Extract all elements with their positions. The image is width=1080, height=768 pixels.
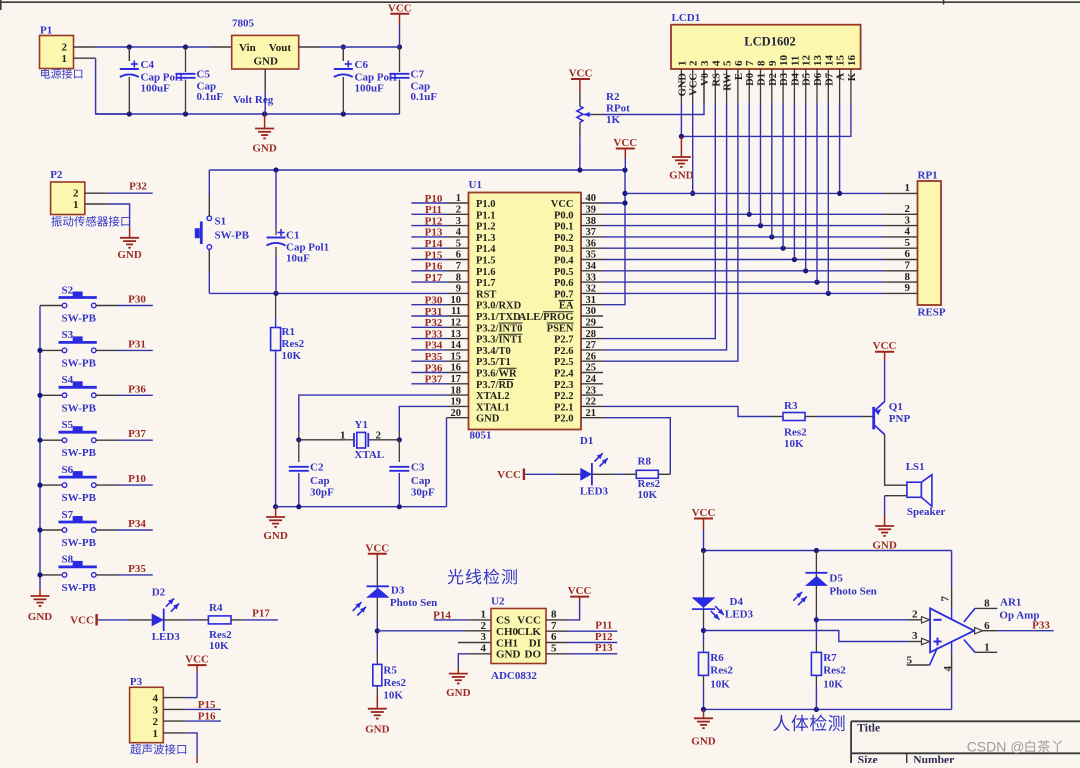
- svg-text:4: 4: [153, 693, 159, 705]
- svg-text:P34: P34: [425, 340, 443, 352]
- svg-text:10K: 10K: [823, 679, 843, 691]
- wire P0.1: [603, 225, 883, 227]
- svg-text:PSEN: PSEN: [547, 323, 574, 334]
- svg-text:1: 1: [62, 53, 68, 65]
- crystal ground rail: [276, 506, 447, 508]
- svg-text:Cap: Cap: [310, 475, 330, 487]
- svg-text:R6: R6: [710, 652, 724, 664]
- wire LS1 to ground: [885, 496, 907, 515]
- svg-text:D5: D5: [829, 573, 843, 585]
- capacitor C6: [334, 47, 398, 114]
- junction: [397, 44, 402, 49]
- junction: [273, 291, 278, 296]
- svg-text:C1: C1: [286, 230, 299, 242]
- svg-text:A: A: [836, 73, 847, 81]
- svg-text:10K: 10K: [638, 489, 658, 501]
- svg-text:CSDN @: CSDN @: [967, 739, 1025, 755]
- junction: [37, 527, 42, 532]
- svg-text:ALE/PROG: ALE/PROG: [519, 312, 574, 323]
- svg-text:10K: 10K: [710, 679, 730, 691]
- wire LCD K to GND: [681, 103, 851, 136]
- svg-text:D3: D3: [391, 585, 405, 597]
- ground: [446, 668, 471, 699]
- svg-text:16: 16: [846, 55, 858, 67]
- svg-text:LED3: LED3: [580, 486, 609, 498]
- wire U2 CS: [434, 619, 491, 621]
- junction: [183, 111, 188, 116]
- svg-text:RP1: RP1: [918, 170, 938, 182]
- svg-text:10: 10: [778, 55, 790, 67]
- svg-text:SW-PB: SW-PB: [62, 447, 97, 459]
- junction: [341, 44, 346, 49]
- svg-text:10K: 10K: [282, 350, 302, 362]
- ground: [872, 515, 897, 552]
- junction: [690, 191, 695, 196]
- wire R8 up: [658, 473, 670, 475]
- svg-text:GND: GND: [254, 56, 279, 68]
- svg-text:P3.6/WR: P3.6/WR: [476, 369, 517, 380]
- svg-text:GND: GND: [263, 530, 288, 542]
- svg-text:Vin: Vin: [239, 42, 256, 54]
- svg-text:S5: S5: [62, 419, 74, 431]
- svg-text:P2.1: P2.1: [554, 402, 574, 413]
- svg-text:2: 2: [62, 42, 68, 54]
- svg-text:GND: GND: [669, 170, 694, 182]
- junction: [814, 280, 819, 285]
- net label P30: [425, 295, 443, 307]
- svg-text:D3: D3: [779, 73, 790, 86]
- svg-text:P35: P35: [128, 563, 146, 575]
- wire LCD D1: [760, 103, 762, 226]
- svg-text:P0.1: P0.1: [554, 222, 574, 233]
- wire S1 bottom: [208, 250, 210, 294]
- svg-text:P14: P14: [433, 610, 451, 622]
- junction: [781, 246, 786, 251]
- svg-text:7: 7: [905, 260, 911, 272]
- wire op-amp output P33: [983, 630, 1054, 632]
- junction: [341, 111, 346, 116]
- junction: [814, 707, 819, 712]
- svg-text:LS1: LS1: [906, 461, 925, 473]
- wire P2.7 to LCD RS: [603, 103, 715, 339]
- svg-text:2: 2: [153, 716, 159, 728]
- svg-text:R5: R5: [383, 665, 397, 677]
- wire LCD D3: [782, 103, 784, 248]
- wire VCC riser: [603, 170, 625, 305]
- wire S7 right: [96, 529, 153, 531]
- wire U1 pin 2: [411, 213, 446, 215]
- svg-text:U2: U2: [491, 596, 505, 608]
- svg-text:P1.6: P1.6: [476, 267, 496, 278]
- power VCC bar: [70, 614, 96, 626]
- svg-text:EA: EA: [559, 301, 574, 312]
- resistor R6: [699, 643, 734, 709]
- junction: [127, 44, 132, 49]
- junction: [375, 628, 380, 633]
- svg-text:P36: P36: [425, 362, 443, 374]
- svg-text:VCC: VCC: [568, 585, 592, 597]
- svg-text:RW: RW: [723, 73, 734, 91]
- svg-text:D1: D1: [757, 73, 768, 86]
- junction: [183, 44, 188, 49]
- wire LCD VCC: [692, 103, 694, 193]
- pin U2 CH1 stub: [458, 642, 491, 644]
- svg-text:3: 3: [481, 631, 487, 643]
- resistor R4: [208, 602, 232, 652]
- svg-text:1: 1: [481, 609, 487, 621]
- svg-text:CH1: CH1: [496, 637, 518, 649]
- svg-text:Size: Size: [858, 755, 878, 764]
- ground: [263, 507, 288, 542]
- svg-text:D2: D2: [768, 73, 779, 86]
- IC U1 8051: [447, 179, 604, 442]
- svg-text:LED3: LED3: [152, 631, 181, 643]
- wire R4 to P17: [231, 619, 278, 621]
- svg-text:P1.7: P1.7: [476, 278, 496, 289]
- capacitor C1: [267, 170, 330, 293]
- net label P10: [128, 473, 146, 485]
- wire P3.1 to ground: [163, 733, 197, 757]
- svg-text:9: 9: [767, 60, 779, 66]
- resistor pack RP1: [883, 170, 945, 319]
- svg-text:1: 1: [73, 199, 79, 211]
- svg-text:P17: P17: [425, 272, 443, 284]
- svg-text:R7: R7: [823, 652, 837, 664]
- wire U2 VCC: [546, 601, 580, 620]
- connector P1: [40, 25, 83, 79]
- svg-text:6: 6: [905, 248, 911, 260]
- svg-text:2: 2: [688, 60, 700, 66]
- svg-text:VCC: VCC: [569, 68, 593, 80]
- svg-text:P0.0: P0.0: [554, 210, 574, 221]
- svg-text:P37: P37: [128, 428, 146, 440]
- wire U1 pin 16: [411, 372, 446, 374]
- svg-text:VCC: VCC: [388, 2, 412, 14]
- svg-text:2: 2: [73, 188, 79, 200]
- net label P33: [425, 328, 443, 340]
- resistor R8: [636, 456, 660, 502]
- wire R2 wiper to LCD V0: [591, 69, 704, 115]
- power VCC: [365, 542, 389, 560]
- wire P3.2: [163, 720, 221, 722]
- wire P0.0: [603, 213, 883, 215]
- wire U1 pin 8: [411, 281, 446, 283]
- svg-text:P3: P3: [130, 676, 143, 688]
- wire P2.2: [85, 192, 153, 194]
- svg-text:P33: P33: [1032, 620, 1050, 632]
- svg-text:P16: P16: [425, 261, 443, 273]
- wire VCC to D2: [98, 619, 152, 621]
- svg-text:P11: P11: [595, 620, 612, 632]
- svg-text:P31: P31: [425, 306, 443, 318]
- svg-text:XTAL: XTAL: [354, 449, 384, 461]
- svg-text:LCD1602: LCD1602: [744, 35, 795, 49]
- svg-text:P2.2: P2.2: [554, 391, 574, 402]
- svg-text:S8: S8: [62, 554, 74, 566]
- wire U1 pin 5: [411, 247, 446, 249]
- svg-text:11: 11: [789, 56, 801, 66]
- svg-text:P1: P1: [40, 25, 52, 37]
- net label P12: [595, 631, 613, 643]
- svg-text:C6: C6: [355, 59, 369, 71]
- wire S6 right: [96, 484, 153, 486]
- svg-text:P14: P14: [425, 238, 443, 250]
- svg-text:VCC: VCC: [497, 469, 521, 481]
- power VCC: [873, 340, 897, 401]
- svg-text:Res2: Res2: [784, 427, 807, 439]
- regulator 7805: [232, 18, 299, 107]
- junction: [792, 257, 797, 262]
- svg-text:15: 15: [835, 55, 847, 67]
- junction: [37, 483, 42, 488]
- svg-text:5: 5: [905, 237, 911, 249]
- svg-text:3: 3: [699, 60, 711, 66]
- svg-text:3: 3: [153, 704, 159, 716]
- wire P2.1 to ground: [85, 204, 130, 227]
- junction: [814, 548, 819, 553]
- svg-text:SW-PB: SW-PB: [62, 582, 97, 594]
- junction: [679, 134, 684, 139]
- ground: [691, 709, 716, 747]
- wire op-amp pin4 GND: [951, 643, 953, 710]
- svg-text:P2.6: P2.6: [554, 346, 574, 357]
- svg-text:CLK: CLK: [517, 626, 541, 638]
- diode D1 LED3: [580, 435, 609, 498]
- svg-text:D2: D2: [152, 587, 166, 599]
- svg-text:P12: P12: [425, 215, 443, 227]
- svg-text:Volt Reg: Volt Reg: [233, 94, 274, 106]
- wire D3 junction to U2 CH0: [377, 630, 491, 632]
- svg-text:C2: C2: [310, 462, 324, 474]
- net label P36: [128, 383, 146, 395]
- svg-text:100uF: 100uF: [141, 83, 171, 95]
- ground: [365, 696, 390, 736]
- svg-text:8051: 8051: [470, 430, 492, 442]
- svg-text:C7: C7: [411, 69, 425, 81]
- crystal Y1: [299, 419, 400, 461]
- net label P37: [425, 374, 443, 386]
- wire U1 pin 15: [411, 360, 446, 362]
- wire S3 left: [40, 349, 62, 351]
- net label P12: [425, 215, 443, 227]
- svg-text:XTAL2: XTAL2: [476, 391, 510, 402]
- svg-text:2: 2: [376, 430, 382, 442]
- svg-text:Res2: Res2: [383, 677, 406, 689]
- svg-text:P1.1: P1.1: [476, 210, 496, 221]
- wire D5 junction: [815, 616, 817, 643]
- net label P11: [425, 204, 442, 216]
- svg-text:Speaker: Speaker: [907, 506, 946, 518]
- ground: [669, 136, 694, 181]
- vcc rail: [704, 550, 952, 552]
- power VCC: [613, 137, 637, 170]
- wire U1 pin 10: [411, 304, 446, 306]
- wire LCD D2: [771, 103, 773, 237]
- wire U1 pin 14: [411, 349, 446, 351]
- net label P15: [425, 249, 443, 261]
- wire S7 left: [40, 529, 62, 531]
- svg-text:P2.0: P2.0: [554, 414, 574, 425]
- junction: [622, 191, 627, 196]
- net label P11: [595, 620, 612, 632]
- svg-text:U1: U1: [469, 179, 482, 191]
- svg-text:VCC: VCC: [517, 615, 541, 627]
- wire P0.6: [603, 281, 883, 283]
- svg-text:D1: D1: [580, 435, 593, 447]
- switch S7: [59, 509, 97, 549]
- svg-text:P2.5: P2.5: [554, 357, 574, 368]
- junction: [577, 167, 582, 172]
- junction: [127, 111, 132, 116]
- svg-text:Y1: Y1: [355, 419, 368, 431]
- ground: [28, 589, 53, 623]
- svg-text:8: 8: [756, 60, 768, 66]
- potentiometer R2: [569, 68, 631, 171]
- svg-text:P35: P35: [425, 351, 443, 363]
- wire U1 GND down: [446, 418, 448, 507]
- svg-text:XTAL1: XTAL1: [476, 402, 510, 413]
- wire U1 pin 12: [411, 326, 446, 328]
- wire P0.7: [603, 292, 883, 294]
- wire U1 pin 7: [411, 270, 446, 272]
- svg-text:Photo Sen: Photo Sen: [390, 597, 437, 609]
- svg-text:SW-PB: SW-PB: [215, 230, 250, 242]
- wire P2.1 to R3: [603, 406, 783, 416]
- svg-text:LCD1: LCD1: [672, 12, 701, 24]
- svg-text:S7: S7: [62, 509, 74, 521]
- junction: [701, 548, 706, 553]
- net label P13: [425, 227, 443, 239]
- junction: [758, 223, 763, 228]
- svg-text:1: 1: [905, 182, 911, 194]
- net label P30: [128, 294, 146, 306]
- speaker LS1: [906, 461, 946, 518]
- wire LCD D0: [748, 103, 750, 214]
- caption guangxianjiance: [448, 569, 517, 585]
- wire switch rail: [39, 306, 41, 590]
- net label P17: [425, 272, 443, 284]
- svg-text:P15: P15: [198, 699, 216, 711]
- svg-text:C4: C4: [141, 59, 155, 71]
- capacitor C3: [389, 440, 435, 507]
- switch S5: [59, 419, 97, 459]
- net label P33: [1032, 620, 1050, 632]
- junction: [769, 234, 774, 239]
- net label P36: [425, 362, 443, 374]
- svg-text:7805: 7805: [232, 18, 255, 30]
- diode D2 LED3: [152, 587, 181, 644]
- wire P2.5 to LCD E: [603, 103, 738, 361]
- capacitor C5: [176, 47, 224, 114]
- svg-text:AR1: AR1: [1000, 597, 1021, 609]
- svg-text:VCC: VCC: [613, 137, 637, 149]
- power VCC: [388, 2, 412, 47]
- junction: [814, 617, 819, 622]
- wire U1 pin 17: [411, 383, 446, 385]
- wire S8 left: [40, 574, 62, 576]
- svg-text:GND: GND: [365, 724, 390, 736]
- svg-text:4: 4: [710, 60, 722, 66]
- connector P2: [50, 169, 130, 227]
- svg-text:SW-PB: SW-PB: [62, 537, 97, 549]
- svg-text:Cap: Cap: [411, 475, 431, 487]
- svg-text:P3.7/RD: P3.7/RD: [476, 380, 514, 391]
- svg-text:Res2: Res2: [282, 338, 305, 350]
- diode D4 LED3: [692, 551, 754, 628]
- wire S6 left: [40, 484, 62, 486]
- net label P31: [425, 306, 443, 318]
- junction: [701, 628, 706, 633]
- svg-text:P1.2: P1.2: [476, 222, 496, 233]
- svg-text:10K: 10K: [383, 690, 403, 702]
- net label P32: [129, 181, 147, 193]
- svg-text:Res2: Res2: [710, 665, 733, 677]
- svg-text:30pF: 30pF: [411, 487, 435, 499]
- wire S1 top: [208, 170, 210, 216]
- svg-text:P16: P16: [198, 711, 216, 723]
- net label P16: [425, 261, 443, 273]
- net label P14: [433, 610, 451, 622]
- svg-text:P0.7: P0.7: [554, 289, 574, 300]
- wire P0.2: [603, 236, 883, 238]
- svg-text:P2.4: P2.4: [554, 369, 574, 380]
- switch S4: [59, 374, 97, 414]
- junction: [803, 268, 808, 273]
- junction: [37, 438, 42, 443]
- svg-text:DI: DI: [529, 637, 541, 649]
- svg-text:2: 2: [912, 608, 918, 620]
- wire P0.3: [603, 247, 883, 249]
- svg-text:SW-PB: SW-PB: [62, 357, 97, 369]
- svg-text:GND: GND: [872, 540, 897, 552]
- IC U2 ADC0832: [481, 596, 558, 683]
- wire LCD D5: [805, 103, 807, 271]
- power VCC bar: [497, 469, 524, 481]
- wire R3 to Q1: [805, 416, 874, 418]
- svg-text:RS: RS: [711, 73, 722, 87]
- net label P16: [198, 711, 216, 723]
- svg-text:VCC: VCC: [551, 199, 574, 210]
- net label P37: [128, 428, 146, 440]
- svg-text:13: 13: [812, 55, 824, 67]
- switch S6: [59, 464, 97, 504]
- wire P3.4 to VCC: [163, 697, 197, 699]
- svg-text:D0: D0: [745, 73, 756, 86]
- svg-text:D4: D4: [790, 72, 801, 86]
- wire D4 junction: [703, 627, 705, 643]
- junction: [826, 291, 831, 296]
- net label P10: [425, 193, 443, 205]
- wire U1 pin 3: [411, 225, 446, 227]
- wire D2 to R4: [164, 619, 209, 621]
- wire D1 to R8: [592, 473, 636, 475]
- wire D4 to op-amp in+: [704, 631, 922, 642]
- svg-text:6: 6: [733, 60, 745, 66]
- resistor R1: [271, 293, 305, 506]
- svg-text:R3: R3: [784, 400, 798, 412]
- vcc distribution wire: [625, 192, 883, 194]
- svg-text:PNP: PNP: [889, 413, 911, 425]
- wire 7805 Vout to VCC: [299, 46, 400, 48]
- svg-text:SW-PB: SW-PB: [62, 313, 97, 325]
- svg-text:P32: P32: [129, 181, 147, 193]
- svg-text:1: 1: [676, 61, 688, 67]
- svg-text:1: 1: [153, 728, 159, 740]
- wire P0.4: [603, 259, 883, 261]
- svg-text:10K: 10K: [209, 640, 229, 652]
- svg-text:GND: GND: [28, 611, 53, 623]
- ground rail: [704, 708, 952, 710]
